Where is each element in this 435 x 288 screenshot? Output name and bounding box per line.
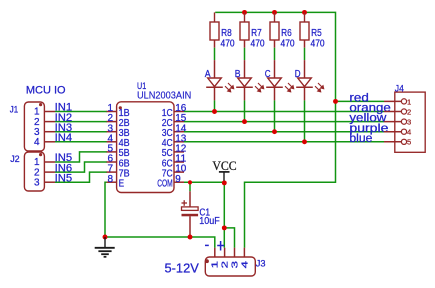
svg-text:R7: R7 (251, 28, 262, 39)
wire net row 4 (184, 141, 384, 143)
U1 pin 7 (7B) (107, 171, 117, 173)
connector J4 (395, 92, 425, 152)
J2 pin 1 (44, 161, 55, 163)
polarity plus (217, 245, 224, 247)
U1 pin 3 (3B) (107, 131, 117, 133)
J1 pin 3 (44, 131, 55, 133)
connector J2 (24, 152, 44, 191)
junction J3 branch (222, 225, 227, 230)
junction C1 top (188, 180, 192, 184)
wire net row 3 (184, 131, 384, 133)
svg-text:C: C (265, 69, 271, 80)
U1 pin 14 (3C) (174, 131, 184, 133)
svg-text:8: 8 (107, 174, 113, 185)
J4 pin 1 (384, 100, 401, 102)
LED C (274, 48, 276, 60)
LED A (214, 48, 216, 60)
svg-text:1: 1 (407, 97, 411, 106)
wire E to ground rail (105, 182, 215, 248)
U1 pin 11 (6C) (174, 161, 184, 163)
junction R6 top (272, 10, 277, 15)
svg-text:2: 2 (407, 107, 411, 116)
junction LED C row (272, 129, 277, 134)
svg-text:4: 4 (407, 128, 411, 137)
svg-text:J1: J1 (10, 105, 18, 116)
wire red net stub (336, 100, 385, 102)
ground symbol (104, 237, 106, 248)
svg-text:J4: J4 (395, 83, 404, 94)
svg-text:MCU IO: MCU IO (26, 85, 66, 97)
svg-text:5: 5 (407, 138, 411, 147)
U1 pin 9 (COM) (174, 181, 184, 183)
svg-text:blue: blue (349, 131, 372, 145)
svg-text:D: D (295, 69, 301, 80)
J3 pin 3 (234, 248, 236, 258)
J4 pin 3 (384, 121, 401, 123)
junction ground node (103, 235, 108, 240)
J1 pin 2 (44, 121, 55, 123)
U1 pin 2 (2B) (107, 121, 117, 123)
junction LED A row (212, 109, 217, 114)
connector J3 (205, 257, 255, 276)
wire LED B cathode to row (244, 100, 246, 121)
junction LED D row (302, 139, 307, 144)
junction C1 bottom (188, 235, 193, 240)
resistor R8 470 (214, 12, 216, 22)
U1 pin 12 (5C) (174, 151, 184, 153)
wire net IN2 (55, 121, 107, 123)
junction VCC (222, 180, 227, 185)
J1 pin 1 (44, 111, 55, 113)
junction LED B row (242, 119, 247, 124)
J4 pin 5 (384, 141, 401, 143)
U1 pin 6 (6B) (107, 161, 117, 163)
wire net IN4 (55, 141, 107, 143)
wire COM net (184, 181, 224, 183)
resistor R7 470 (244, 12, 246, 22)
wire net IN5 (55, 152, 107, 162)
wire VCC down to J3 pins 2,3 (223, 182, 225, 248)
junction R5 top (302, 10, 307, 15)
svg-text:E: E (119, 178, 125, 190)
svg-text:J3: J3 (256, 258, 266, 269)
svg-text:470: 470 (281, 39, 295, 50)
U1 pin 8 (E) (107, 181, 117, 183)
svg-text:4: 4 (240, 260, 249, 268)
svg-text:VCC: VCC (212, 158, 236, 173)
svg-text:2: 2 (221, 260, 230, 268)
svg-text:COM: COM (157, 178, 173, 190)
wire net IN5 (55, 172, 107, 182)
svg-text:5-12V: 5-12V (165, 261, 200, 275)
VCC symbol (219, 171, 230, 173)
svg-text:470: 470 (311, 39, 325, 50)
connector J1 (24, 102, 44, 151)
svg-text:9: 9 (175, 174, 181, 185)
U1 pin 15 (2C) (174, 121, 184, 123)
J3 pin 4 (243, 248, 245, 258)
svg-text:ULN2003AIN: ULN2003AIN (137, 90, 191, 101)
wire net row 1 (184, 111, 384, 113)
svg-text:1: 1 (211, 260, 220, 268)
wire net IN3 (55, 131, 107, 133)
wire net IN6 (55, 162, 107, 172)
svg-text:470: 470 (251, 39, 265, 50)
svg-text:4: 4 (34, 137, 40, 148)
svg-text:R6: R6 (281, 28, 292, 39)
wire net row 2 (184, 121, 384, 123)
resistor R5 470 (304, 12, 306, 22)
J3 pin 1 (214, 248, 216, 258)
svg-text:470: 470 (221, 39, 235, 50)
svg-text:3: 3 (230, 260, 239, 268)
LED D (304, 48, 306, 60)
svg-text:R5: R5 (311, 28, 322, 39)
U1 pin 10 (7C) (174, 171, 184, 173)
svg-text:A: A (205, 69, 211, 80)
wire LED C cathode to row (274, 100, 276, 131)
J4 pin 2 (384, 111, 401, 113)
svg-text:3: 3 (34, 177, 40, 188)
U1 pin 1 (1B) (107, 111, 117, 113)
J3 pin 2 (224, 248, 226, 258)
svg-text:J2: J2 (10, 154, 20, 165)
polarity minus (205, 244, 209, 246)
junction red net (333, 99, 338, 104)
svg-text:R8: R8 (221, 28, 232, 39)
J4 pin 4 (384, 131, 401, 133)
wire LED D cathode to row (304, 100, 306, 141)
U1 pin 16 (1C) (174, 111, 184, 113)
J2 pin 2 (44, 171, 55, 173)
svg-text:B: B (235, 69, 241, 80)
wire net IN1 (55, 111, 107, 113)
svg-text:3: 3 (407, 118, 411, 127)
LED B (244, 48, 246, 60)
resistor R6 470 (274, 12, 276, 22)
J2 pin 3 (44, 181, 55, 183)
U1 pin 4 (4B) (107, 141, 117, 143)
IC U1 ULN2003AIN (117, 102, 174, 193)
wire LED A cathode to row (214, 100, 216, 111)
svg-text:IN4: IN4 (55, 132, 72, 144)
svg-text:10uF: 10uF (199, 216, 220, 227)
U1 pin 5 (5B) (107, 151, 117, 153)
junction R7 top (242, 10, 247, 15)
capacitor C1 10uF (189, 182, 191, 191)
wire +V rail (215, 12, 335, 247)
svg-text:IN5: IN5 (55, 172, 72, 184)
J1 pin 4 (44, 141, 55, 143)
U1 pin 13 (4C) (174, 141, 184, 143)
